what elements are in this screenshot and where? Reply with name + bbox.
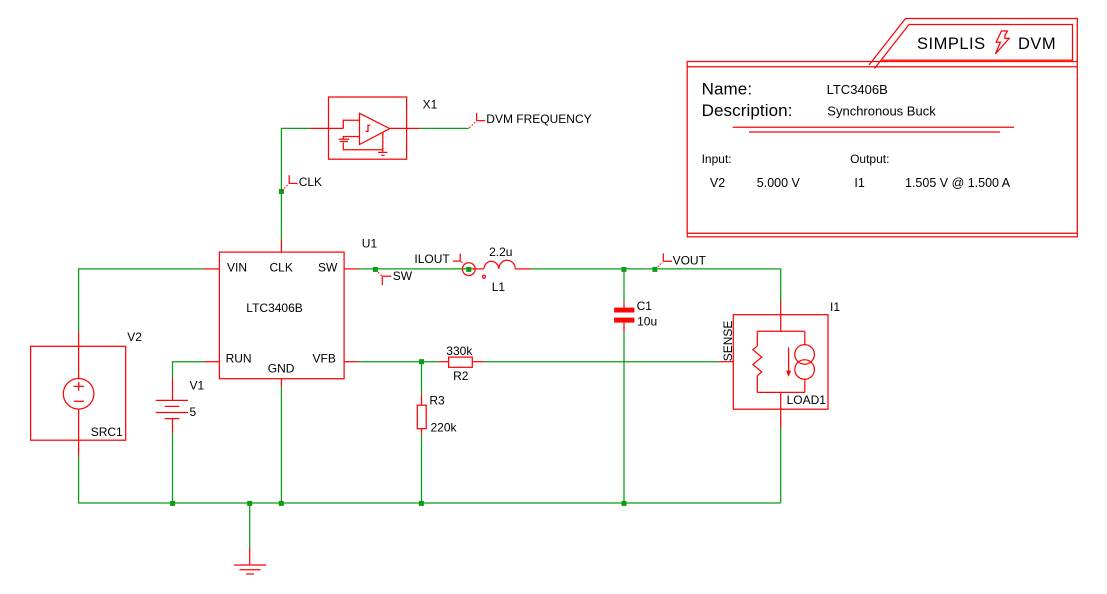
svg-text:Output:: Output: bbox=[850, 152, 889, 166]
svg-text:1.505 V @ 1.500 A: 1.505 V @ 1.500 A bbox=[905, 176, 1011, 190]
svg-text:DVM FREQUENCY: DVM FREQUENCY bbox=[486, 112, 591, 126]
svg-text:V2: V2 bbox=[710, 176, 725, 190]
svg-text:LTC3406B: LTC3406B bbox=[246, 301, 302, 315]
svg-text:LOAD1: LOAD1 bbox=[787, 393, 827, 407]
svg-text:X1: X1 bbox=[423, 98, 438, 112]
svg-text:Name:: Name: bbox=[702, 80, 753, 99]
svg-text:I1: I1 bbox=[830, 300, 840, 314]
svg-text:SENSE: SENSE bbox=[721, 321, 735, 362]
svg-text:10u: 10u bbox=[637, 314, 657, 328]
svg-text:LTC3406B: LTC3406B bbox=[827, 82, 888, 97]
svg-text:330k: 330k bbox=[446, 344, 473, 358]
svg-text:Synchronous Buck: Synchronous Buck bbox=[827, 104, 936, 119]
svg-text:SW: SW bbox=[318, 260, 338, 274]
svg-text:CLK: CLK bbox=[270, 260, 293, 274]
svg-text:Description:: Description: bbox=[702, 101, 793, 120]
svg-text:L1: L1 bbox=[492, 280, 506, 294]
svg-text:SIMPLIS: SIMPLIS bbox=[917, 35, 986, 53]
svg-text:VIN: VIN bbox=[227, 260, 247, 274]
svg-text:C1: C1 bbox=[637, 299, 653, 313]
svg-text:R2: R2 bbox=[453, 369, 469, 383]
svg-text:R3: R3 bbox=[429, 394, 445, 408]
svg-text:5.000 V: 5.000 V bbox=[757, 176, 801, 190]
svg-text:V1: V1 bbox=[190, 379, 205, 393]
svg-text:2.2u: 2.2u bbox=[489, 245, 512, 259]
svg-text:VOUT: VOUT bbox=[673, 253, 707, 267]
svg-text:GND: GND bbox=[268, 362, 295, 376]
svg-text:Input:: Input: bbox=[702, 152, 732, 166]
svg-text:U1: U1 bbox=[362, 237, 378, 251]
svg-text:SW: SW bbox=[393, 269, 413, 283]
svg-text:DVM: DVM bbox=[1018, 35, 1056, 53]
svg-text:220k: 220k bbox=[431, 421, 458, 435]
svg-text:I1: I1 bbox=[854, 176, 864, 190]
svg-text:ILOUT: ILOUT bbox=[414, 252, 450, 266]
svg-text:VFB: VFB bbox=[313, 352, 336, 366]
svg-text:RUN: RUN bbox=[226, 352, 252, 366]
svg-text:V2: V2 bbox=[127, 330, 142, 344]
svg-text:CLK: CLK bbox=[299, 175, 322, 189]
svg-text:SRC1: SRC1 bbox=[91, 425, 123, 439]
svg-text:5: 5 bbox=[190, 405, 197, 419]
